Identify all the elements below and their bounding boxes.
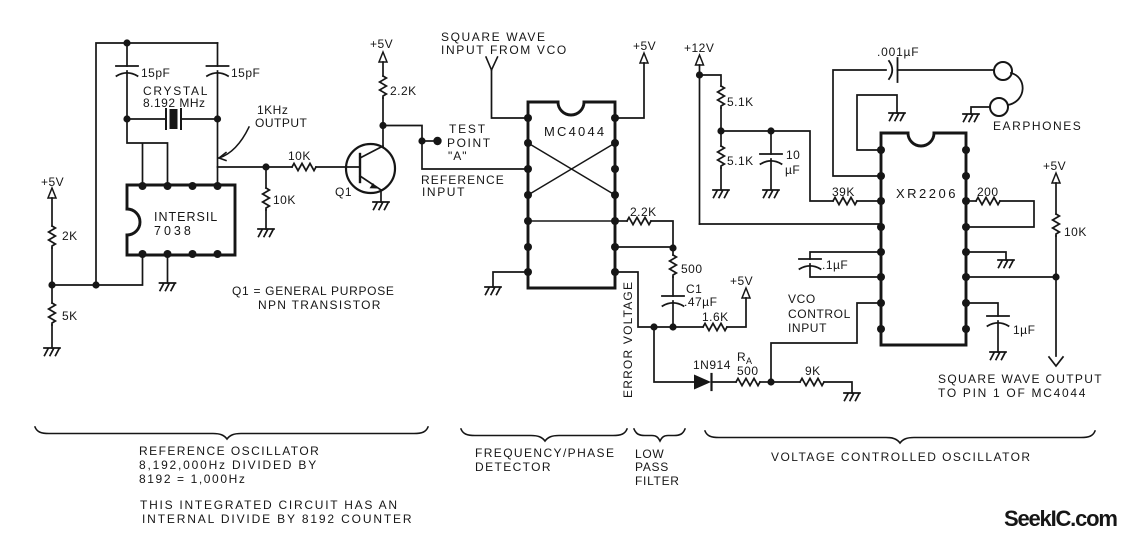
wire pin2 to .001uF rail xyxy=(833,70,886,176)
wire pin6 to junction xyxy=(615,246,673,248)
pin dots MC4044 left xyxy=(524,114,532,276)
svg-text:"A": "A" xyxy=(448,149,468,163)
svg-text:+5V: +5V xyxy=(370,37,393,51)
node: +5V supply Q1 xyxy=(370,37,393,62)
wire: feedback vertical + top rail xyxy=(96,43,218,285)
ground MC4044 pin 7 xyxy=(485,272,528,295)
capacitor 15pF left xyxy=(116,43,170,119)
node crystal right xyxy=(214,115,221,122)
svg-text:THIS INTEGRATED CIRCUIT HAS AN: THIS INTEGRATED CIRCUIT HAS AN xyxy=(140,498,399,512)
svg-text:TO PIN 1 OF MC4044: TO PIN 1 OF MC4044 xyxy=(938,386,1087,400)
node: +5V supply MC4044 xyxy=(615,39,656,118)
resistor RA 500 xyxy=(736,350,771,386)
node +12V junction xyxy=(696,71,703,78)
svg-text:+5V: +5V xyxy=(633,39,656,53)
wire curved arrow to 1KHz point xyxy=(219,127,249,161)
svg-text:500: 500 xyxy=(737,364,759,378)
pin dots MC4044 right xyxy=(611,114,619,276)
svg-text:INPUT: INPUT xyxy=(422,185,466,199)
node RA/9K junction xyxy=(767,378,774,385)
label 1KHz OUTPUT xyxy=(255,103,308,130)
pin dots 7038 bottom xyxy=(139,250,222,258)
svg-text:+5V: +5V xyxy=(41,175,64,189)
pin dots XR2206 right xyxy=(962,146,970,333)
svg-text:PASS: PASS xyxy=(635,460,669,474)
svg-text:µF: µF xyxy=(785,163,800,177)
wire collector to MC4044 reference input xyxy=(383,126,528,170)
node: +5V supply 1.6K xyxy=(730,274,753,298)
svg-text:1µF: 1µF xyxy=(1013,323,1035,337)
svg-text:.1µF: .1µF xyxy=(822,258,848,272)
svg-text:SQUARE WAVE: SQUARE WAVE xyxy=(441,30,547,44)
brace reference oscillator xyxy=(35,427,428,439)
resistor 5.1K lower xyxy=(718,131,754,190)
svg-text:VOLTAGE CONTROLLED OSCILLATOR: VOLTAGE CONTROLLED OSCILLATOR xyxy=(771,450,1032,464)
wire error voltage xyxy=(615,272,703,327)
node 5.1K junction xyxy=(717,127,724,134)
node 10uF junction xyxy=(767,127,774,134)
wire: junction row to IC pin xyxy=(52,255,143,285)
wire MC4044 internal line xyxy=(528,220,615,222)
svg-text:39K: 39K xyxy=(832,185,855,199)
ground under 7038 pin 2 xyxy=(160,255,176,291)
resistor 2.2K phase det xyxy=(615,205,673,248)
resistor 10K pulldown xyxy=(263,167,296,229)
ground 1uF xyxy=(990,352,1006,360)
capacitor .1uF loop xyxy=(799,252,881,277)
svg-text:CONTROL: CONTROL xyxy=(788,307,851,321)
svg-text:XR2206: XR2206 xyxy=(896,186,958,201)
svg-text:8.192 MHz: 8.192 MHz xyxy=(143,96,206,110)
capacitor 1uF xyxy=(966,303,1035,352)
ground 5.1K xyxy=(713,190,729,198)
crystal 8.192MHz xyxy=(127,84,218,129)
svg-text:10K: 10K xyxy=(1064,225,1087,239)
svg-text:5K: 5K xyxy=(62,309,78,323)
wire crystal left node to IC pins 1,2 xyxy=(127,119,168,185)
brace low pass filter xyxy=(634,429,685,441)
svg-text:LOW: LOW xyxy=(635,447,664,461)
ground earphones xyxy=(963,107,990,122)
ground pin right XR2206 xyxy=(966,252,1014,268)
ground under 10K xyxy=(258,229,274,237)
wire +12V to XR2206 xyxy=(700,223,882,225)
node square wave input Y xyxy=(486,57,528,118)
svg-text:500: 500 xyxy=(681,262,703,276)
wire to diode xyxy=(654,327,694,382)
ground under Q1 emitter xyxy=(373,202,389,210)
svg-text:REFERENCE OSCILLATOR: REFERENCE OSCILLATOR xyxy=(139,444,320,458)
svg-text:+12V: +12V xyxy=(684,41,714,55)
node top rail / cap1 xyxy=(123,39,130,46)
svg-text:1N914: 1N914 xyxy=(693,358,731,372)
node collector junction xyxy=(379,122,386,129)
svg-text:TEST: TEST xyxy=(449,122,487,136)
svg-text:ERROR VOLTAGE: ERROR VOLTAGE xyxy=(621,281,635,398)
svg-text:8,192,000Hz DIVIDED BY: 8,192,000Hz DIVIDED BY xyxy=(139,458,318,472)
resistor 500 xyxy=(670,248,703,296)
svg-text:2.2K: 2.2K xyxy=(390,84,417,98)
node test point A xyxy=(422,137,442,145)
label frequency/phase detector xyxy=(475,446,615,474)
resistor 5K xyxy=(49,285,78,348)
label low pass filter xyxy=(635,447,680,488)
wire 1KHz output line xyxy=(218,166,293,168)
pin dots XR2206 left xyxy=(877,146,885,333)
wire square wave output xyxy=(966,277,1056,356)
svg-text:2K: 2K xyxy=(62,229,78,243)
resistor 2K xyxy=(49,226,78,285)
label square wave input from VCO xyxy=(441,30,568,57)
svg-text:Q1 = GENERAL PURPOSE: Q1 = GENERAL PURPOSE xyxy=(232,284,395,298)
label reference oscillator xyxy=(139,444,413,526)
wire crystal right node to IC pin 4 xyxy=(217,119,219,185)
svg-text:OUTPUT: OUTPUT xyxy=(255,116,308,130)
node 500 junction xyxy=(669,244,676,251)
svg-text:5.1K: 5.1K xyxy=(727,154,754,168)
svg-text:C1: C1 xyxy=(686,282,702,296)
svg-text:VCO: VCO xyxy=(788,292,816,306)
node error voltage junction C1 xyxy=(669,323,676,330)
node: +12V supply xyxy=(684,41,714,224)
svg-text:FREQUENCY/PHASE: FREQUENCY/PHASE xyxy=(475,446,615,460)
svg-text:+5V: +5V xyxy=(1043,159,1066,173)
node output junction xyxy=(1052,273,1059,280)
svg-text:FILTER: FILTER xyxy=(635,474,680,488)
svg-text:R: R xyxy=(737,350,746,364)
label test point A xyxy=(447,122,492,163)
resistor 1.6K xyxy=(702,298,746,331)
svg-text:9K: 9K xyxy=(805,364,821,378)
resistor 39K xyxy=(832,185,881,205)
node test point junction xyxy=(418,137,425,144)
brace voltage controlled oscillator xyxy=(705,431,1095,443)
node base line junction xyxy=(262,163,269,170)
transistor Q1 xyxy=(335,126,395,203)
label VCO control input xyxy=(788,292,851,335)
ground 10uF xyxy=(763,190,779,198)
svg-text:.47µF: .47µF xyxy=(684,295,717,309)
resistor 200 xyxy=(966,185,1034,227)
node diode branch junction xyxy=(650,323,657,330)
svg-text:INPUT FROM VCO: INPUT FROM VCO xyxy=(441,43,568,57)
ground 9K xyxy=(844,393,860,401)
wire VCO control input xyxy=(771,303,881,382)
node: +5V supply 10K xyxy=(1043,159,1066,214)
arrow output xyxy=(1049,357,1063,366)
svg-text:POINT: POINT xyxy=(447,136,492,150)
resistor 2.2K collector xyxy=(380,62,417,126)
svg-text:MC4044: MC4044 xyxy=(544,124,606,139)
svg-text:5.1K: 5.1K xyxy=(727,95,754,109)
capacitor 15pF right xyxy=(207,43,261,119)
node feedback junction xyxy=(92,281,99,288)
wire MC4044 internal X xyxy=(528,143,615,195)
IC MC4044 xyxy=(528,102,615,288)
capacitor .001uF xyxy=(877,45,994,82)
capacitor C1 .47uF xyxy=(662,282,717,327)
capacitor 10uF xyxy=(760,131,800,190)
svg-text:7038: 7038 xyxy=(154,224,194,238)
svg-text:INTERSIL: INTERSIL xyxy=(154,210,218,224)
svg-text:DETECTOR: DETECTOR xyxy=(475,460,552,474)
label reference input xyxy=(421,173,505,199)
label Q1 general purpose xyxy=(232,284,395,312)
ground below 5K xyxy=(44,348,60,356)
svg-text:+5V: +5V xyxy=(730,274,753,288)
svg-text:SQUARE WAVE OUTPUT: SQUARE WAVE OUTPUT xyxy=(938,372,1103,386)
wire junction to 39K corner xyxy=(721,131,833,201)
earphones xyxy=(990,62,1082,133)
svg-text:.001µF: .001µF xyxy=(877,45,919,59)
svg-text:8192 = 1,000Hz: 8192 = 1,000Hz xyxy=(139,472,246,486)
svg-text:200: 200 xyxy=(977,185,999,199)
node crystal left xyxy=(123,115,130,122)
resistor 5.1K upper xyxy=(700,75,754,131)
resistor 9K xyxy=(771,364,852,393)
svg-text:INTERNAL DIVIDE BY 8192 COUNTE: INTERNAL DIVIDE BY 8192 COUNTER xyxy=(142,512,413,526)
svg-text:SeekIC.com: SeekIC.com xyxy=(1004,506,1117,531)
svg-text:Q1: Q1 xyxy=(335,185,352,199)
label square wave output xyxy=(938,372,1103,400)
ground loop pin1 XR2206 xyxy=(857,95,905,150)
op-amp U1: IC INTERSIL 7038 xyxy=(127,185,235,255)
node: +5V supply left xyxy=(41,175,64,226)
svg-text:15pF: 15pF xyxy=(141,66,170,80)
svg-text:2.2K: 2.2K xyxy=(630,205,657,219)
svg-text:10: 10 xyxy=(786,148,800,162)
svg-text:EARPHONES: EARPHONES xyxy=(993,119,1082,133)
svg-text:1.6K: 1.6K xyxy=(702,310,729,324)
svg-text:INPUT: INPUT xyxy=(788,321,827,335)
IC XR2206 xyxy=(881,133,966,345)
svg-text:15pF: 15pF xyxy=(231,66,260,80)
wire xyxy=(51,198,53,226)
brace frequency/phase detector xyxy=(461,429,627,441)
resistor 10K series xyxy=(288,149,360,171)
svg-text:10K: 10K xyxy=(273,193,296,207)
pin dots 7038 top xyxy=(139,182,222,190)
node junction 2K/5K xyxy=(48,281,55,288)
svg-text:10K: 10K xyxy=(288,149,311,163)
diode 1N914 xyxy=(693,358,736,390)
svg-text:NPN TRANSISTOR: NPN TRANSISTOR xyxy=(258,298,382,312)
resistor 10K output xyxy=(1053,214,1087,277)
svg-text:1KHz: 1KHz xyxy=(257,103,288,117)
